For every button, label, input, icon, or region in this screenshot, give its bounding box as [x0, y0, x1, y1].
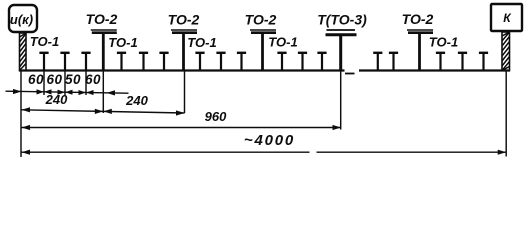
svg-text:50: 50 [65, 72, 81, 87]
svg-text:ТО-2: ТО-2 [86, 11, 118, 27]
svg-text:ТО-1: ТО-1 [268, 35, 297, 50]
svg-text:ТО-2: ТО-2 [245, 12, 277, 28]
svg-text:и(к): и(к) [10, 12, 33, 27]
svg-text:ТО-1: ТО-1 [187, 35, 216, 50]
svg-text:240: 240 [125, 93, 148, 108]
svg-text:Т(ТО-3): Т(ТО-3) [317, 12, 367, 28]
svg-text:60: 60 [46, 72, 62, 87]
svg-text:ТО-1: ТО-1 [30, 34, 59, 49]
svg-text:240: 240 [45, 92, 68, 107]
svg-text:60: 60 [85, 72, 101, 87]
svg-text:960: 960 [205, 109, 227, 124]
svg-text:60: 60 [28, 72, 44, 87]
svg-text:ТО-1: ТО-1 [429, 35, 458, 50]
svg-text:ТО-1: ТО-1 [108, 35, 137, 50]
svg-text:ТО-2: ТО-2 [402, 11, 434, 27]
svg-text:~4000: ~4000 [244, 132, 295, 149]
svg-text:ТО-2: ТО-2 [168, 12, 200, 28]
